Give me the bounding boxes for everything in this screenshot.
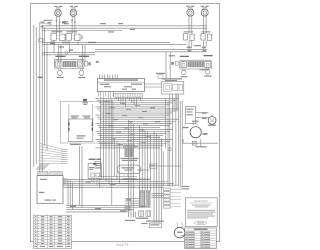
surface element SE1	[55, 9, 62, 16]
color code legend table	[185, 228, 217, 249]
surface switch SW4	[200, 31, 213, 40]
label right of SW2	[88, 42, 96, 43]
oven light switch box	[186, 107, 196, 124]
main board right pins	[63, 179, 67, 184]
relay text inside	[77, 135, 86, 138]
band area horizontals	[125, 199, 139, 204]
wire bus L1 horizontal	[42, 26, 207, 31]
element label	[136, 218, 148, 219]
wires from SE1 down	[56, 16, 61, 33]
relay section outline	[61, 102, 114, 144]
auto box wires down	[92, 179, 100, 188]
sensor left verticals	[115, 139, 120, 184]
junction comp right bus 1	[187, 47, 192, 52]
connector marks below switches	[59, 42, 73, 51]
switch box C square	[181, 62, 186, 68]
wires U1 to relay box	[145, 84, 162, 87]
wire nest verticals	[128, 94, 177, 223]
wire bus left lower	[42, 53, 95, 55]
bake element label	[125, 220, 135, 221]
motor M1	[174, 222, 185, 238]
svg-text:3164778: 3164778	[116, 243, 129, 247]
ribbon block right	[188, 61, 204, 67]
relay contact right	[91, 104, 93, 131]
element terminal marks	[139, 211, 151, 217]
oven relay box	[68, 119, 92, 142]
main board output wires	[63, 180, 178, 188]
serial labels	[142, 221, 164, 225]
bus labels top left	[47, 22, 65, 23]
switch to infinite-switch wires	[54, 40, 85, 63]
connector below switch C	[181, 69, 188, 77]
relay contact left	[68, 104, 70, 131]
wire nest horizontals	[96, 99, 180, 148]
label on right bus	[194, 45, 201, 46]
junction comp right bus 2	[202, 47, 206, 52]
DLB relay comp	[83, 99, 89, 105]
wire labels L1	[85, 181, 115, 184]
connector below switch D	[204, 67, 211, 76]
wires SW4 to bus	[203, 41, 206, 50]
label above surface element SE1	[54, 6, 62, 8]
board U1 bottom connector row	[114, 93, 143, 97]
surface element SE3	[187, 9, 194, 16]
conv fan label	[196, 146, 207, 147]
wire label left of SE1	[44, 20, 53, 25]
harness stub connectors	[62, 150, 68, 164]
surface switch SW3	[182, 31, 195, 40]
bottom wire labels	[70, 206, 146, 212]
wire bus right mid	[95, 49, 207, 52]
fan motor	[190, 121, 201, 138]
small box right of sensor	[150, 164, 157, 168]
left wire connector comp	[41, 22, 45, 28]
right side vertical wires	[163, 94, 182, 188]
conv fan wire	[183, 142, 218, 144]
wires from SE3 down	[189, 16, 192, 34]
wires from SE4 down	[203, 16, 206, 34]
connector below switch A	[57, 69, 64, 79]
relay label left	[71, 116, 79, 119]
wire into color table	[181, 235, 185, 237]
relay section bottom label	[70, 144, 81, 145]
connector below switch B	[78, 69, 85, 79]
terminal comp left of SW1	[50, 42, 55, 45]
left column wires center	[101, 99, 112, 205]
junction node	[168, 148, 171, 151]
surface switch SW2	[65, 31, 83, 40]
switch box A square	[56, 61, 61, 67]
bottom long horizontals	[66, 205, 139, 212]
oven sensor box	[117, 165, 140, 179]
switch assembly outer box left	[54, 59, 84, 68]
sensor area horizontals	[98, 166, 181, 184]
wire label between SE1 SE2	[62, 21, 69, 24]
warning box	[185, 198, 217, 227]
main board side verticals	[68, 179, 72, 210]
broil element connector band B	[146, 191, 150, 208]
label above surface element SE4	[201, 6, 209, 9]
comps right of assembly left	[85, 62, 91, 66]
main control board	[37, 176, 63, 204]
label SU-SW A	[55, 56, 65, 57]
connector P3 hatch	[125, 148, 134, 157]
auto box label	[89, 159, 101, 160]
broil element connector band A	[139, 191, 145, 208]
surface element SE4	[201, 9, 208, 16]
drawing border frame	[31, 4, 220, 242]
small comp left of switch C	[171, 61, 178, 65]
relay label right	[82, 116, 90, 119]
switch assembly outer box right	[180, 60, 212, 69]
label SU-SW C	[180, 56, 189, 57]
diagonal wire bundle at main board	[36, 164, 50, 170]
ribbon block between switch boxes	[63, 61, 77, 67]
diamond junction	[65, 51, 69, 55]
oven lamp label	[208, 125, 216, 126]
wires from comb into nest	[117, 97, 141, 107]
electronic oven control board U1	[98, 79, 145, 92]
wires into board U1 top	[100, 75, 118, 79]
wires right of relay section	[80, 146, 83, 208]
labels left of warning box	[181, 186, 189, 190]
wire nest labels	[104, 101, 160, 147]
bus labels top center	[100, 23, 135, 33]
fan motor labels	[183, 127, 208, 135]
label left of board U1	[96, 61, 99, 63]
small comp on left band	[39, 39, 43, 42]
small box left of band	[125, 206, 129, 210]
wires from SE2 down	[71, 16, 76, 34]
connector P3 label box	[124, 145, 135, 148]
oven lamp wires	[196, 113, 209, 120]
label right of board U1 top	[169, 55, 176, 56]
wire bus N horizontal	[42, 43, 186, 45]
sensor text rows	[121, 158, 139, 161]
right lower vertical wires	[182, 139, 184, 143]
label SU-SW D	[204, 55, 213, 56]
wire color code table	[34, 215, 72, 248]
comp above relay box	[156, 73, 165, 79]
oven lamp	[208, 115, 216, 124]
switch box B square	[78, 61, 83, 67]
label SU-SW B	[79, 56, 89, 57]
surface element SE2	[70, 9, 77, 16]
bake element terminals	[129, 212, 136, 218]
label above lamp cluster	[162, 78, 182, 81]
left band label	[38, 77, 43, 79]
main board top connector combs	[38, 172, 63, 176]
label above surface element SE2	[70, 6, 78, 8]
switch box D square	[205, 62, 210, 68]
label below ribbon right	[200, 69, 209, 70]
conv fan connector	[192, 139, 200, 148]
wires SW3 to bus	[189, 41, 192, 50]
terminal block TB1	[164, 188, 182, 208]
surface switch SW1	[50, 31, 66, 40]
footer part number 3164778	[116, 243, 129, 247]
svg-text:WARNING: WARNING	[194, 200, 208, 203]
auto box	[88, 163, 101, 179]
wire fan diagonals	[40, 144, 63, 164]
board U1 left pin ticks	[98, 92, 114, 99]
terminal block horizontals	[151, 194, 163, 198]
left harness vertical wires	[34, 22, 47, 172]
lamp cluster box	[162, 82, 184, 95]
small box left of sensor	[95, 161, 101, 168]
wires bus to lamp cluster	[166, 52, 170, 82]
label above surface element SE3	[186, 6, 194, 9]
serial box	[149, 223, 161, 227]
